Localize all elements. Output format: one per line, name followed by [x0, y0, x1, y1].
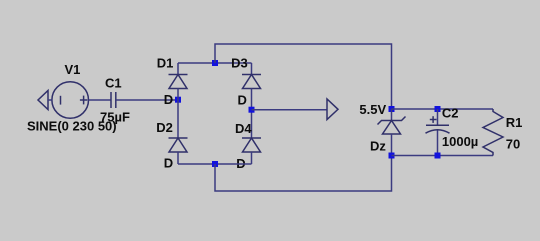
svg-text:5.5V: 5.5V	[359, 102, 386, 117]
svg-text:D: D	[238, 92, 247, 107]
svg-text:1000µ: 1000µ	[442, 134, 478, 149]
svg-text:C1: C1	[105, 76, 122, 91]
wire	[177, 63, 179, 75]
svg-text:R1: R1	[506, 115, 523, 130]
resistor R1	[483, 109, 503, 156]
svg-text:D3: D3	[231, 56, 248, 71]
wire bottom rail of bridge	[178, 163, 252, 165]
diode D3	[242, 75, 261, 89]
svg-text:C2: C2	[442, 106, 459, 121]
voltage source V1	[52, 82, 89, 119]
wire	[48, 99, 52, 101]
node junction bottom rail	[212, 161, 218, 167]
svg-text:Dz: Dz	[370, 138, 386, 153]
wire	[116, 99, 178, 101]
port arrow output	[327, 99, 338, 120]
svg-text:V1: V1	[65, 62, 81, 77]
wire	[391, 109, 393, 121]
svg-text:70: 70	[506, 137, 520, 152]
node D right junction	[249, 107, 255, 113]
svg-text:D2: D2	[156, 120, 173, 135]
wire	[251, 89, 253, 139]
diode D4	[242, 138, 261, 152]
svg-text:D: D	[164, 156, 173, 171]
wire	[177, 152, 179, 164]
wire output to port	[252, 109, 328, 111]
svg-text:D: D	[164, 92, 173, 107]
node C2 bottom junction	[435, 153, 441, 159]
wire	[437, 131, 439, 156]
wire	[251, 63, 253, 75]
svg-text:D1: D1	[157, 56, 174, 71]
node junction top rail	[212, 60, 218, 66]
capacitor C2 polarized	[426, 116, 450, 133]
wire bottom return path	[215, 156, 392, 192]
node D left junction	[175, 97, 181, 103]
diode D1	[169, 75, 188, 89]
wire jog from top rail to 5.5V node	[215, 44, 392, 109]
wire	[391, 134, 393, 156]
wire top right rail	[392, 108, 494, 110]
svg-text:75µF: 75µF	[100, 110, 130, 125]
wire bottom right rail	[392, 155, 494, 157]
wire	[251, 152, 253, 164]
wire	[89, 99, 111, 101]
port arrow at V1 negative terminal	[38, 91, 48, 110]
diode D2	[169, 138, 188, 152]
node C2 top junction	[435, 106, 441, 112]
node 5.5V junction	[389, 106, 395, 112]
node Dz bottom junction	[389, 153, 395, 159]
wire	[177, 89, 179, 139]
wire	[437, 109, 439, 125]
svg-text:D4: D4	[235, 121, 252, 136]
zener diode Dz	[378, 117, 406, 135]
wire top rail of bridge	[178, 62, 252, 64]
capacitor C1	[111, 92, 116, 108]
